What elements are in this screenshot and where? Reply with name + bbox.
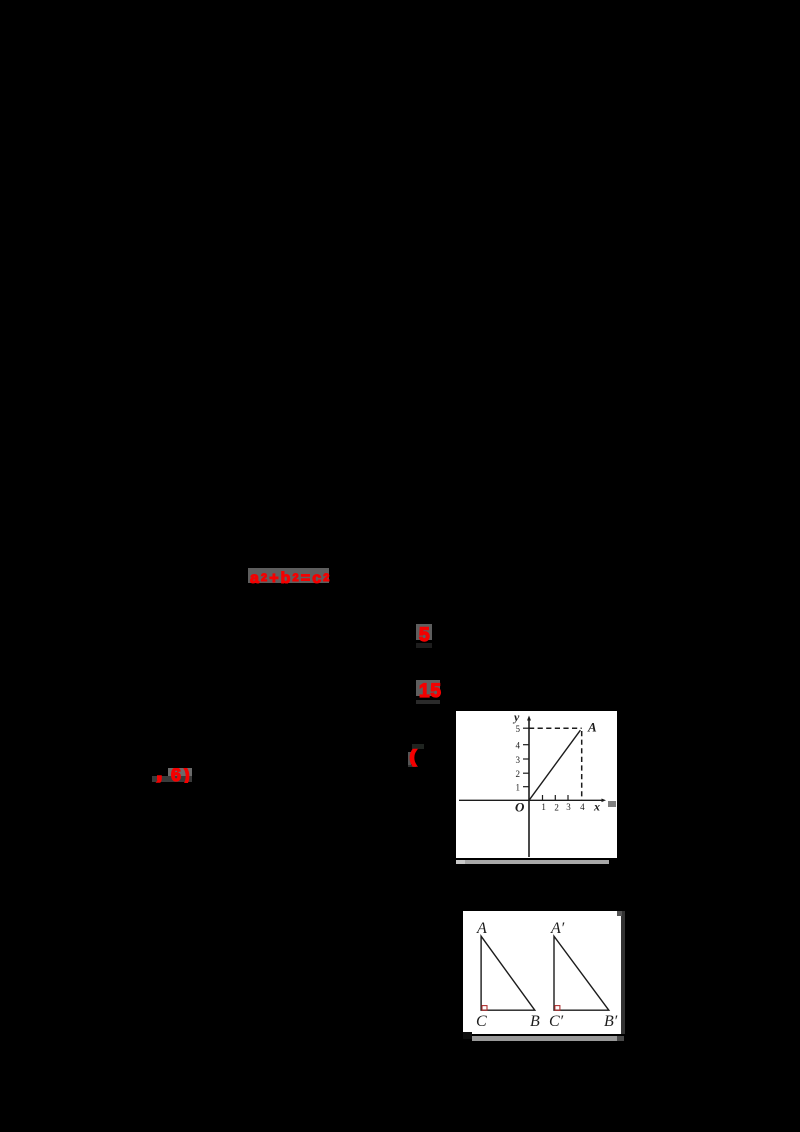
dashed vertical from A	[581, 731, 583, 800]
x tick marks	[542, 795, 544, 800]
y tick marks	[523, 727, 529, 729]
right angle at C'	[555, 1006, 560, 1011]
svg-text:5: 5	[516, 724, 521, 734]
x-axis	[459, 799, 604, 801]
figure 2 bottom-left dark square	[463, 1032, 472, 1039]
svg-text:y: y	[512, 711, 520, 724]
svg-text:4: 4	[516, 741, 521, 751]
dashed horizontal to A	[529, 727, 582, 729]
y-axis	[528, 719, 530, 857]
figure 2 bottom shadow	[472, 1036, 622, 1041]
node ans5: red comma and 6) on gray highlight	[168, 768, 192, 776]
figure 2: congruent triangles image	[463, 911, 621, 1034]
svg-text:O: O	[515, 800, 525, 815]
figure 2 top-right handle	[617, 911, 622, 916]
svg-text:B: B	[530, 1013, 540, 1030]
svg-text:3: 3	[516, 755, 521, 765]
node ans1: a^2+b^2=c^2 highlighted answer	[248, 568, 329, 583]
svg-text:1: 1	[541, 802, 546, 812]
svg-text:C′: C′	[549, 1013, 564, 1030]
figure 2 right border	[621, 911, 625, 1034]
figure 1: coordinate plane image	[456, 711, 617, 858]
node ans2: red digit 5 on gray highlight	[416, 624, 432, 640]
svg-text:B′: B′	[604, 1013, 618, 1030]
svg-text:A′: A′	[550, 920, 565, 937]
right angle at C	[482, 1006, 487, 1011]
svg-text:C: C	[476, 1013, 487, 1030]
triangle A'B'C'	[554, 936, 609, 1010]
svg-text:A: A	[476, 920, 487, 937]
figure 1 bottom shadow	[456, 860, 609, 864]
svg-text:2: 2	[554, 803, 559, 813]
triangle ABC	[481, 936, 535, 1010]
svg-text:2: 2	[516, 769, 521, 779]
node ans4: red open parenthesis	[408, 752, 411, 765]
svg-text:3: 3	[566, 802, 571, 812]
node ans3: red 15 on gray highlight	[416, 680, 440, 696]
figure 1 resize handle	[608, 801, 616, 807]
segment OA	[529, 730, 580, 800]
svg-text:4: 4	[580, 802, 585, 812]
svg-text:1: 1	[516, 783, 521, 793]
svg-text:A: A	[587, 720, 597, 735]
svg-text:x: x	[593, 800, 600, 814]
